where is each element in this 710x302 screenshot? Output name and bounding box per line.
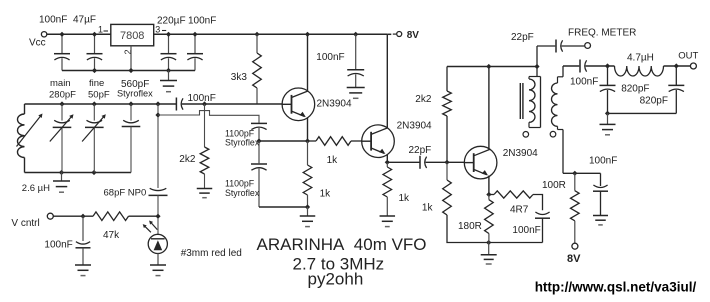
- svg-text:2k2: 2k2: [415, 94, 432, 105]
- svg-text:4.7µH: 4.7µH: [627, 53, 654, 64]
- svg-text:100nF: 100nF: [589, 156, 617, 167]
- svg-text:280pF: 280pF: [49, 90, 76, 101]
- svg-text:180R: 180R: [458, 221, 482, 232]
- svg-text:main: main: [50, 78, 71, 89]
- svg-text:Styroflex: Styroflex: [225, 188, 260, 198]
- svg-text:2.6 µH: 2.6 µH: [22, 183, 50, 194]
- svg-text:100nF: 100nF: [188, 93, 216, 104]
- svg-text:7808: 7808: [120, 30, 144, 42]
- svg-text:820pF: 820pF: [640, 96, 668, 107]
- svg-text:220µF: 220µF: [157, 16, 186, 27]
- svg-text:1: 1: [98, 25, 103, 35]
- svg-text:50pF: 50pF: [88, 90, 110, 101]
- svg-text:1k: 1k: [422, 202, 434, 213]
- svg-text:ARARINHA 40m VFO: ARARINHA 40m VFO: [257, 235, 427, 254]
- svg-text:Styroflex: Styroflex: [117, 89, 153, 99]
- svg-text:V cntrl: V cntrl: [11, 218, 39, 229]
- svg-text:820pF: 820pF: [621, 84, 649, 95]
- svg-text:100R: 100R: [542, 180, 566, 191]
- svg-text:100nF: 100nF: [39, 15, 67, 26]
- svg-text:100nF: 100nF: [316, 52, 344, 63]
- svg-text:3k3: 3k3: [231, 72, 248, 83]
- svg-text:http://www.qsl.net/va3iul/: http://www.qsl.net/va3iul/: [535, 280, 697, 295]
- svg-text:1k: 1k: [320, 188, 332, 199]
- svg-text:8V: 8V: [567, 253, 581, 265]
- svg-text:22pF: 22pF: [409, 145, 432, 156]
- svg-text:2N3904: 2N3904: [397, 121, 432, 132]
- svg-text:100nF: 100nF: [44, 240, 72, 251]
- svg-text:1k: 1k: [327, 155, 339, 166]
- svg-text:OUT: OUT: [678, 50, 698, 61]
- svg-text:Vcc: Vcc: [29, 38, 46, 49]
- svg-text:2N3904: 2N3904: [317, 99, 352, 110]
- svg-text:1k: 1k: [399, 193, 411, 204]
- svg-text:fine: fine: [89, 78, 104, 89]
- svg-text:FREQ. METER: FREQ. METER: [568, 28, 636, 39]
- svg-text:47µF: 47µF: [73, 15, 96, 26]
- svg-text:#3mm red led: #3mm red led: [181, 248, 242, 259]
- svg-text:100nF: 100nF: [188, 16, 216, 27]
- svg-text:68pF NP0: 68pF NP0: [104, 187, 147, 198]
- svg-text:4R7: 4R7: [510, 204, 529, 215]
- svg-text:8V: 8V: [407, 30, 420, 41]
- svg-text:py2ohh: py2ohh: [308, 270, 364, 289]
- svg-text:22pF: 22pF: [511, 32, 534, 43]
- svg-text:100nF: 100nF: [512, 225, 540, 236]
- svg-text:2k2: 2k2: [179, 154, 196, 165]
- svg-text:47k: 47k: [103, 230, 120, 241]
- svg-text:100nF: 100nF: [570, 77, 598, 88]
- svg-text:1100pF: 1100pF: [225, 178, 255, 188]
- svg-text:Styroflex: Styroflex: [225, 137, 260, 147]
- svg-text:2N3904: 2N3904: [503, 148, 538, 159]
